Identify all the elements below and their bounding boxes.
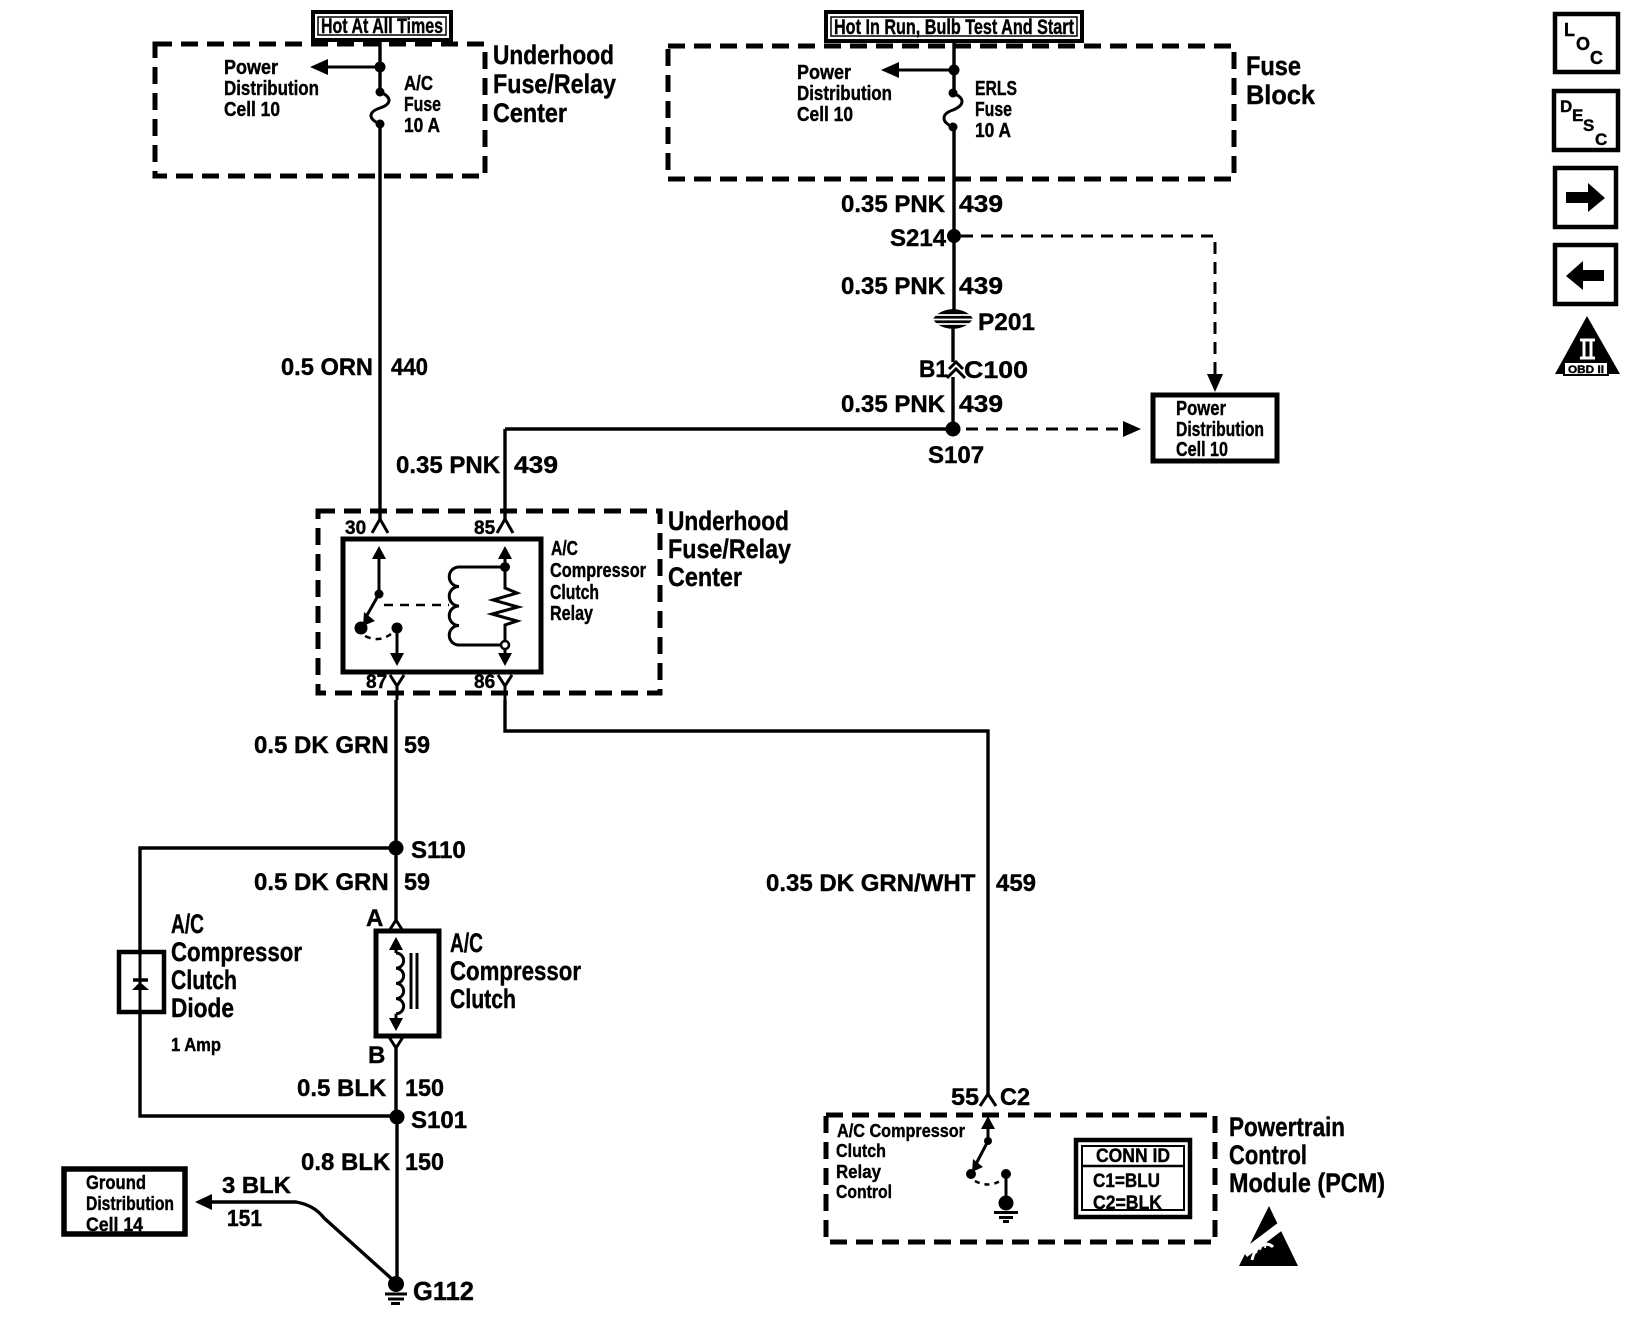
svg-text:B: B (368, 1042, 385, 1069)
svg-text:150: 150 (405, 1075, 444, 1102)
label 0.35 PNK 439 (second) (841, 273, 1003, 300)
svg-text:ERLS: ERLS (975, 78, 1017, 100)
svg-text:S110: S110 (411, 837, 466, 864)
clutch plate lines (411, 953, 417, 1009)
fuse ERLS Fuse 10A (944, 89, 962, 132)
node S214 (890, 225, 961, 252)
svg-text:Power: Power (797, 62, 851, 84)
svg-text:A: A (366, 905, 383, 932)
svg-text:A/C: A/C (551, 538, 578, 560)
dashed box PCM (826, 1115, 1215, 1242)
svg-text:C2: C2 (1000, 1084, 1030, 1111)
svg-text:440: 440 (391, 354, 428, 381)
svg-text:0.5 DK GRN: 0.5 DK GRN (254, 869, 389, 896)
svg-text:Clutch: Clutch (171, 965, 237, 995)
label A/C Compressor Clutch Diode (171, 909, 302, 1055)
label Underhood Fuse/Relay Center (relay) (668, 506, 791, 592)
pin 87 connector (366, 672, 404, 700)
relay A/C Compressor Clutch Relay box (343, 539, 541, 672)
svg-text:0.35 DK GRN/WHT: 0.35 DK GRN/WHT (766, 870, 976, 897)
svg-text:Cell 10: Cell 10 (797, 104, 853, 126)
dashed box underhood fuse/relay center (relay) (318, 511, 660, 693)
wire S214 to P201 (952, 236, 955, 310)
node S110 (389, 837, 466, 864)
wire from header into fuse (378, 40, 381, 92)
ESD sensitive symbol (1239, 1206, 1298, 1266)
svg-text:Distribution: Distribution (1176, 419, 1264, 441)
svg-text:Relay: Relay (836, 1161, 882, 1182)
diode A/C Compressor Clutch Diode (119, 952, 164, 1012)
svg-text:Clutch: Clutch (450, 984, 516, 1014)
svg-text:Ground: Ground (86, 1173, 146, 1194)
svg-text:Cell 10: Cell 10 (224, 99, 280, 121)
node S107 (928, 422, 984, 470)
label 0.5 ORN 440 (281, 354, 428, 381)
svg-text:D: D (1560, 97, 1572, 116)
svg-text:439: 439 (959, 391, 1003, 418)
svg-text:Distribution: Distribution (224, 78, 319, 100)
svg-text:86: 86 (474, 672, 495, 693)
svg-text:P201: P201 (978, 309, 1035, 336)
svg-text:Center: Center (493, 98, 567, 128)
label 0.35 PNK 439 (relay) (396, 452, 558, 479)
CONN ID table (1076, 1140, 1190, 1217)
svg-text:30: 30 (345, 518, 366, 539)
wire arrow to Power Distribution (left) (310, 59, 380, 75)
svg-text:Power: Power (1176, 398, 1226, 420)
svg-text:Center: Center (668, 562, 742, 592)
svg-text:S107: S107 (928, 442, 984, 469)
svg-text:Block: Block (1246, 80, 1316, 110)
svg-text:Compressor: Compressor (550, 560, 646, 582)
svg-text:1 Amp: 1 Amp (171, 1035, 221, 1055)
dashed box fuse block (top right) (668, 46, 1234, 179)
svg-text:439: 439 (959, 273, 1003, 300)
svg-text:C: C (1590, 48, 1603, 68)
wire from header into ERLS fuse (952, 41, 955, 93)
svg-text:Fuse: Fuse (975, 99, 1012, 121)
svg-text:Fuse/Relay: Fuse/Relay (493, 69, 616, 99)
label A/C Fuse 10 A (404, 73, 441, 137)
svg-text:Cell 10: Cell 10 (1176, 439, 1228, 461)
wire S107 to relay pin 85 branch (505, 427, 953, 430)
svg-text:150: 150 (405, 1149, 444, 1176)
label Power Distribution Cell 10 (fuse block) (797, 62, 892, 126)
wire 3 BLK 151 lead with arrow (195, 1194, 393, 1280)
svg-text:55: 55 (951, 1084, 979, 1111)
A/C compressor clutch box (376, 931, 439, 1036)
relay resistor (492, 571, 518, 641)
svg-text:10 A: 10 A (404, 115, 440, 137)
svg-text:Relay: Relay (550, 603, 594, 625)
wire S107 branch down to relay pin 85 (503, 429, 506, 519)
wire pin 87 to S110 (394, 700, 397, 848)
svg-text:Distribution: Distribution (797, 83, 892, 105)
label Power Distribution Cell 10 (left) (224, 57, 319, 121)
svg-text:A/C: A/C (404, 73, 433, 95)
svg-text:Cell 14: Cell 14 (86, 1215, 143, 1236)
wire S101 to G112 (395, 1117, 398, 1280)
dashed wire S214 to power distribution box (961, 236, 1223, 392)
header box Hot At All Times (313, 12, 451, 40)
svg-text:0.5 BLK: 0.5 BLK (297, 1075, 387, 1102)
svg-text:Compressor: Compressor (450, 956, 581, 986)
svg-text:0.35 PNK: 0.35 PNK (841, 273, 946, 300)
box ground distribution cell 14 (64, 1169, 185, 1236)
label 0.35 PNK 439 (first) (841, 191, 1003, 218)
relay coil (449, 567, 505, 645)
svg-text:439: 439 (514, 452, 558, 479)
PCM switch dashed throw (975, 1181, 1000, 1185)
svg-text:S101: S101 (411, 1107, 467, 1134)
PCM internal ground (994, 1169, 1018, 1222)
relay switch arm (pin 30) (355, 546, 387, 635)
icon forward arrow (1555, 168, 1616, 227)
label 0.5 DK GRN 59 (second) (254, 869, 430, 896)
label 0.5 DK GRN 59 (first) (254, 732, 430, 759)
ground G112 (385, 1276, 474, 1306)
node junction dot top-right (949, 65, 960, 76)
svg-text:Underhood: Underhood (493, 40, 614, 70)
svg-text:S214: S214 (890, 225, 947, 252)
svg-text:0.5 ORN: 0.5 ORN (281, 354, 373, 381)
wire fuse to relay pin 30 (378, 124, 381, 519)
svg-text:439: 439 (959, 191, 1003, 218)
svg-text:Power: Power (224, 57, 278, 79)
svg-text:59: 59 (404, 732, 430, 759)
svg-text:Underhood: Underhood (668, 506, 789, 536)
relay mechanical dashed link (384, 604, 449, 607)
pin 55 C2 connector (951, 1084, 1030, 1111)
label Powertrain Control Module (PCM) (1229, 1112, 1385, 1198)
svg-text:Clutch: Clutch (550, 582, 599, 604)
svg-text:0.8 BLK: 0.8 BLK (301, 1149, 391, 1176)
label Underhood Fuse/Relay Center (top left) (493, 40, 616, 128)
wire S110 diode branch (left loop) (140, 848, 396, 952)
wire ERLS fuse to S214 (952, 127, 955, 236)
wire P201 to C100 (951, 329, 954, 362)
node S101 (390, 1107, 468, 1134)
header box Hot In Run, Bulb Test And Start (826, 12, 1082, 41)
svg-text:A/C Compressor: A/C Compressor (837, 1120, 965, 1141)
svg-text:0.5 DK GRN: 0.5 DK GRN (254, 732, 389, 759)
wire C100 to S107 (951, 377, 954, 429)
connector P201 (933, 309, 1035, 336)
svg-text:L: L (1564, 20, 1575, 40)
svg-text:Powertrain: Powertrain (1229, 1112, 1345, 1142)
svg-text:59: 59 (404, 869, 430, 896)
svg-text:Fuse/Relay: Fuse/Relay (668, 534, 791, 564)
svg-text:0.35 PNK: 0.35 PNK (841, 191, 946, 218)
label A/C Compressor Clutch Relay (550, 538, 646, 625)
icon OBD II triangle (1555, 316, 1620, 376)
relay pin 85 arrow (498, 546, 512, 562)
relay NO contact to pin 87 (390, 623, 404, 667)
svg-text:Hot In Run, Bulb Test And Star: Hot In Run, Bulb Test And Start (834, 16, 1074, 39)
label 0.5 BLK 150 (297, 1075, 444, 1102)
svg-text:0.35 PNK: 0.35 PNK (396, 452, 501, 479)
relay coil bottom open circle and pin 86 arrow (498, 641, 512, 666)
label 0.35 PNK 439 (third) (841, 391, 1003, 418)
svg-text:O: O (1576, 34, 1590, 54)
svg-text:Control: Control (1229, 1140, 1307, 1170)
label ERLS Fuse 10 A (975, 78, 1017, 142)
label A/C Compressor Clutch (450, 928, 581, 1014)
svg-text:Compressor: Compressor (171, 937, 302, 967)
node junction dot top-left (375, 62, 386, 73)
svg-text:OBD II: OBD II (1568, 364, 1604, 376)
svg-text:3 BLK: 3 BLK (222, 1172, 291, 1198)
svg-text:B1: B1 (919, 356, 948, 383)
PCM driver switch (966, 1116, 995, 1179)
pin A connector (366, 848, 403, 932)
svg-text:87: 87 (366, 672, 387, 693)
svg-text:CONN ID: CONN ID (1096, 1146, 1170, 1167)
pin 85 connector (474, 518, 513, 539)
svg-text:C: C (1595, 130, 1607, 149)
svg-text:Module (PCM): Module (PCM) (1229, 1168, 1385, 1198)
svg-text:C100: C100 (964, 357, 1028, 384)
svg-text:Diode: Diode (171, 993, 234, 1023)
fuse A/C Fuse 10A (371, 88, 389, 129)
dashed arrow S107 to power distribution box (966, 421, 1141, 437)
relay NO contact dashed throw (365, 634, 391, 639)
svg-text:A/C: A/C (450, 928, 483, 958)
dashed box underhood fuse/relay center (top left) (155, 44, 485, 176)
pin 30 connector (345, 518, 388, 539)
wire diode to S101 loop (140, 1012, 397, 1116)
svg-text:151: 151 (227, 1205, 262, 1231)
svg-text:Fuse: Fuse (1246, 51, 1301, 81)
svg-text:Control: Control (836, 1181, 892, 1202)
svg-text:G112: G112 (413, 1276, 474, 1306)
svg-text:C2=BLK: C2=BLK (1093, 1193, 1162, 1214)
svg-text:459: 459 (996, 870, 1036, 897)
svg-text:S: S (1583, 116, 1594, 135)
clutch coil with arrows (389, 937, 404, 1031)
svg-text:E: E (1572, 106, 1583, 125)
relay coil node dot (500, 562, 510, 572)
label 3 BLK 151 (222, 1172, 291, 1231)
icon DESC (1554, 91, 1618, 150)
pin 86 connector (474, 672, 512, 700)
wire arrow to Power Distribution (right box) (881, 62, 954, 78)
svg-text:Distribution: Distribution (86, 1194, 174, 1215)
icon back arrow (1555, 245, 1616, 304)
svg-text:Hot At All Times: Hot At All Times (321, 15, 443, 38)
svg-text:C1=BLU: C1=BLU (1093, 1171, 1160, 1192)
svg-text:A/C: A/C (171, 909, 204, 939)
wire relay pin 86 to PCM (505, 700, 988, 1094)
svg-text:Clutch: Clutch (836, 1140, 886, 1161)
label Fuse Block (1246, 51, 1316, 110)
svg-text:10 A: 10 A (975, 120, 1011, 142)
svg-text:85: 85 (474, 518, 496, 539)
box power distribution cell 10 (right) (1153, 395, 1277, 461)
svg-text:Fuse: Fuse (404, 94, 441, 116)
label 0.35 DK GRN/WHT 459 (766, 870, 1036, 897)
pin B connector (368, 1037, 403, 1116)
label A/C Compressor Clutch Relay Control (836, 1120, 965, 1202)
icon LOC (1555, 14, 1618, 72)
svg-text:0.35 PNK: 0.35 PNK (841, 391, 946, 418)
label 0.8 BLK 150 (301, 1149, 444, 1176)
connector B1 C100 (919, 356, 1028, 384)
